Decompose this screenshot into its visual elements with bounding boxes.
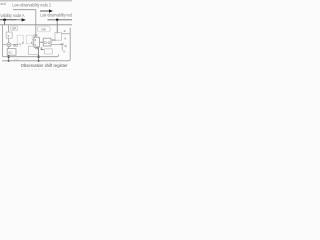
wire FF3 right — [61, 33, 70, 35]
wire node C — [48, 19, 73, 21]
arrow to node C — [40, 10, 49, 12]
right edge wire — [69, 28, 71, 60]
wire vertical from node 2 — [35, 10, 37, 38]
junction dot FF1/outer bus — [8, 60, 10, 62]
wire circle to FF1 — [8, 47, 10, 49]
wire FF2 out — [51, 44, 62, 46]
top bus wire — [0, 24, 72, 26]
svg-text:-9: -9 — [63, 29, 66, 33]
svg-text:auli: auli — [0, 2, 6, 6]
OP2 cell (wide) — [38, 26, 51, 32]
svg-text:OP,: OP, — [41, 27, 46, 31]
wire mux down — [38, 47, 40, 60]
wire A drop — [4, 20, 6, 25]
gate box 1 (left column) — [6, 32, 12, 38]
svg-text:Observation shift register: Observation shift register — [21, 63, 69, 68]
svg-text:9|: 9| — [64, 44, 67, 48]
svg-text:C2: C2 — [14, 58, 18, 62]
FF2 box — [43, 38, 51, 46]
node A junction dot — [3, 18, 6, 21]
wire down right of FF2 — [61, 45, 63, 51]
OP1 cell — [11, 26, 18, 31]
svg-text:Low-observability node 2: Low-observability node 2 — [12, 2, 51, 7]
svg-text:OP,: OP, — [12, 27, 17, 31]
top gray band — [0, 0, 72, 1]
node A arrow — [17, 19, 22, 21]
wire mux to FF2 — [40, 41, 44, 43]
wire FF1 down — [8, 55, 10, 61]
wire box1 to circle — [8, 38, 10, 43]
FF1 box — [7, 49, 16, 56]
gate box B1 — [17, 35, 23, 44]
wire elbow below FF2 — [41, 47, 44, 49]
left edge wire — [2, 25, 4, 57]
FF3 box (right column) — [55, 33, 61, 41]
wire node-2 leader — [13, 9, 36, 11]
junction dot FF1/bus — [7, 56, 9, 58]
mux — [34, 37, 40, 47]
junction dot mux/bus — [37, 56, 39, 58]
register cell 3 — [45, 49, 53, 54]
wire A inner drop — [8, 25, 10, 32]
inner bus — [3, 54, 59, 56]
svg-text:rvability node A: rvability node A — [0, 13, 25, 18]
faint rule under caption — [21, 69, 72, 71]
mux input stubs — [32, 40, 34, 45]
junction dot mux/outer bus — [38, 60, 40, 62]
svg-text:D G: D G — [44, 41, 50, 45]
register cell 2 — [29, 46, 39, 54]
svg-text:Low observability nod: Low observability nod — [40, 13, 72, 18]
wire node A — [0, 19, 17, 21]
node C junction dot — [56, 19, 59, 22]
buffer circle — [7, 43, 11, 47]
gate box B2 — [26, 35, 32, 44]
outer bus — [2, 59, 70, 61]
wire C drop — [56, 20, 58, 34]
wire into glyph row — [3, 44, 7, 46]
